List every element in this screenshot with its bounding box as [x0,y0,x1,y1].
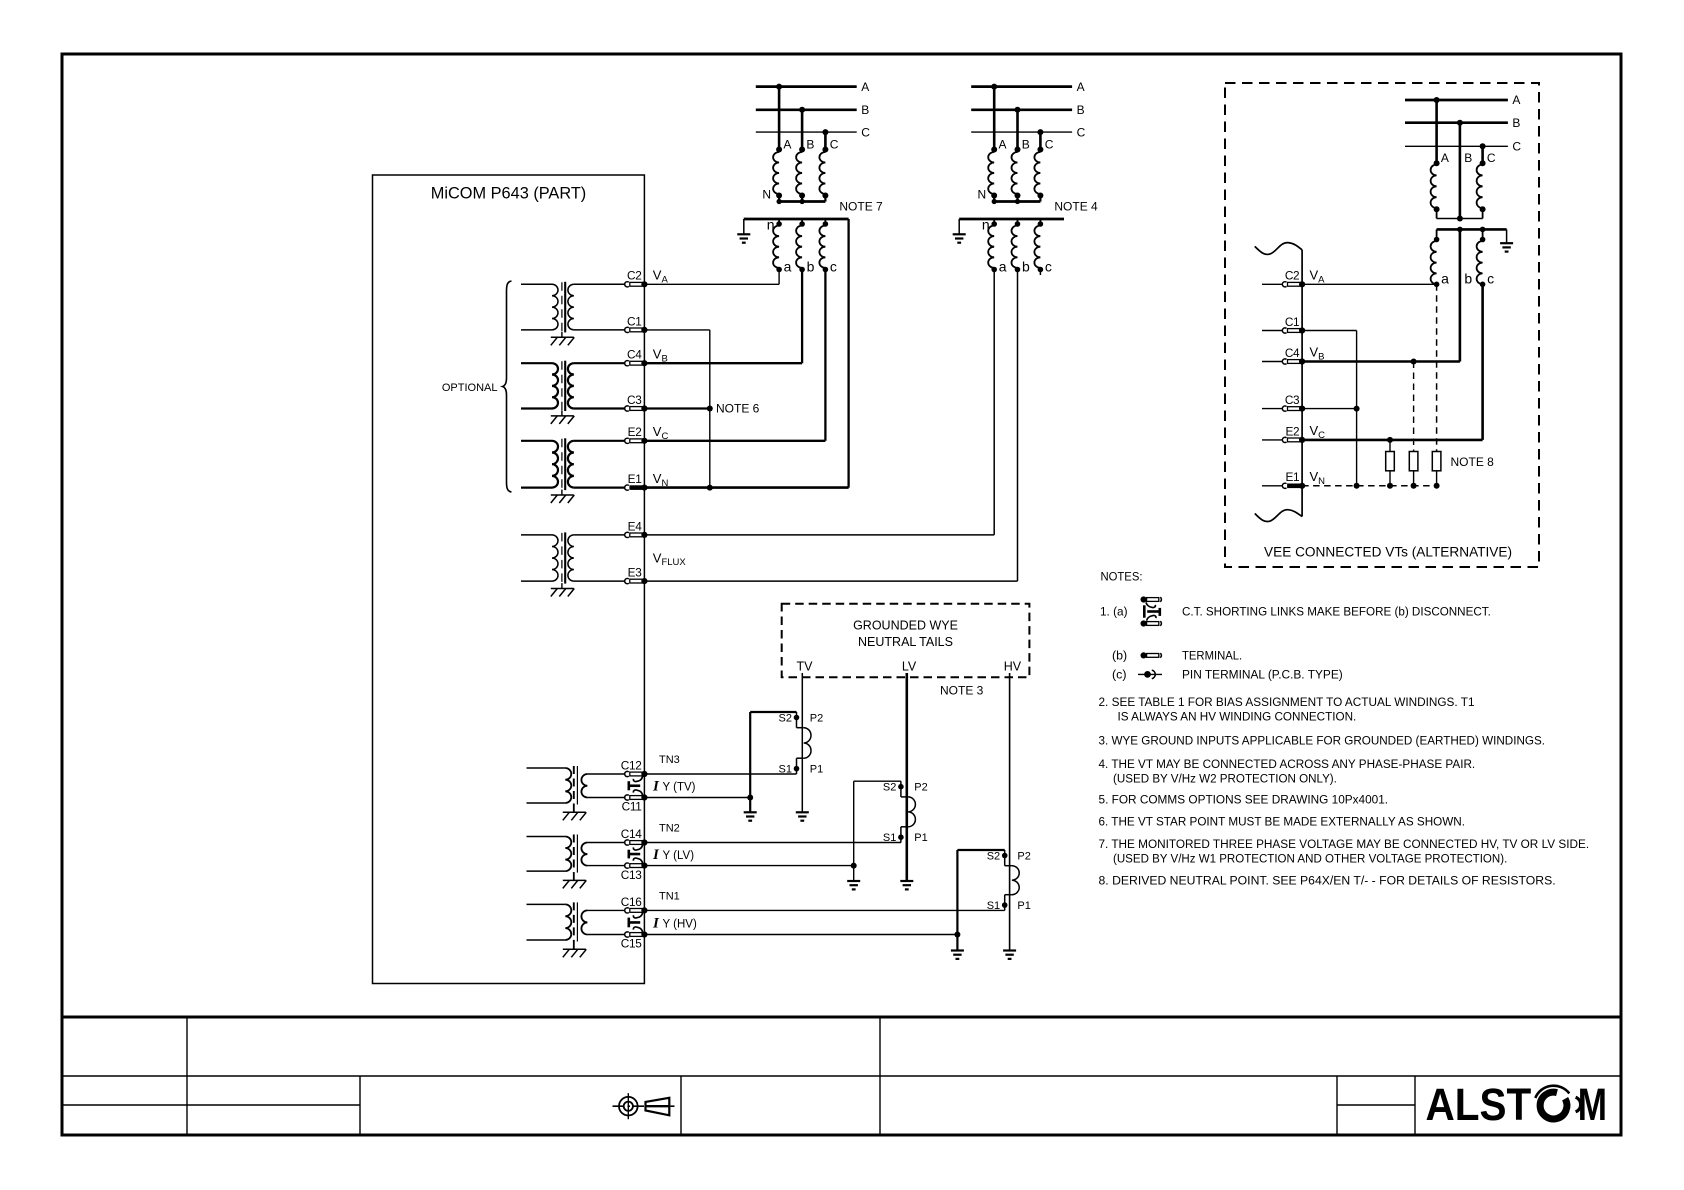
svg-text:N: N [978,188,987,202]
VT primary winding B [1012,152,1018,194]
VEE relay bus [1301,250,1303,517]
stub bank2 c [1039,270,1041,276]
terminal E1 [625,472,648,491]
svg-text:5. FOR COMMS OPTIONS SEE DRAW: 5. FOR COMMS OPTIONS SEE DRAWING 10Px400… [1099,793,1389,807]
svg-text:NOTE 6: NOTE 6 [716,401,760,415]
wire C13 loop to S2 LV [644,865,853,867]
svg-text:C.T. SHORTING LINKS MAKE BEFOR: C.T. SHORTING LINKS MAKE BEFORE (b) DISC… [1182,605,1491,619]
tap C wire [824,132,827,149]
svg-text:NOTE 4: NOTE 4 [1054,200,1098,214]
svg-text:C1: C1 [1285,315,1299,329]
junction C11 ground [747,795,753,801]
svg-text:I: I [652,915,660,931]
resistor R3 (NOTE 8) [1432,452,1441,471]
brace OPTIONAL group [503,281,512,492]
junction C1-VN [707,485,713,491]
shorting link C12-C11 [628,776,643,795]
title block sub-row line right [1337,1104,1415,1106]
svg-text:C4: C4 [1285,346,1300,360]
VT primary winding C [819,152,825,194]
VEE junction C3-C1 [1354,406,1360,412]
svg-text:C: C [861,125,870,139]
secondary earth stub [958,219,960,234]
svg-text:P2: P2 [1017,851,1030,863]
svg-text:C: C [1512,140,1521,154]
tap C wire [1039,132,1042,149]
VT primary winding C [1034,152,1040,194]
tap B wire [801,110,804,150]
VEE primary rail [1437,218,1483,220]
tap A wire [778,87,781,150]
svg-text:c: c [1487,271,1494,287]
VEE terminal C2 [1262,269,1305,288]
VT primary winding A [988,152,994,194]
MiCOM P643 relay box [373,175,645,984]
VEE bus B [1405,121,1508,124]
svg-text:NOTE 3: NOTE 3 [940,684,984,698]
svg-text:C: C [1045,138,1054,152]
junction C13 ground [851,863,857,869]
svg-text:NOTES:: NOTES: [1101,570,1143,584]
earth ground TV loop [744,811,757,813]
resistor R2 (NOTE 8) [1409,452,1418,471]
transformer VT3 (VC-VN input) [521,438,625,503]
svg-text:C12: C12 [621,758,642,772]
transformer CT TN3 [527,766,626,820]
svg-text:3. WYE GROUND INPUTS APPLICABL: 3. WYE GROUND INPUTS APPLICABLE FOR GROU… [1099,734,1546,748]
terminal C13 [621,863,648,882]
earth ground LV tail [900,880,913,882]
earth ground VEE [1500,242,1513,244]
svg-text:c: c [1045,259,1052,275]
title block vertical x1337 [1336,1076,1338,1135]
earth stub LV loop [853,866,855,881]
svg-text:TN2: TN2 [659,823,680,835]
bus A (NOTE 7) [756,85,857,88]
svg-text:C4: C4 [627,348,642,362]
tap A wire [993,87,996,150]
VEE wire VC [1302,439,1483,442]
svg-text:A: A [1441,151,1449,165]
svg-text:a: a [999,259,1007,275]
VEE terminal E2 [1262,424,1305,443]
VEE lead c down [1481,284,1484,440]
title block vertical x187 [186,1017,188,1135]
VEE secondary winding c [1482,229,1484,241]
VT secondary winding a [778,219,780,226]
svg-text:(USED BY V/Hz W1 PROTECTION AN: (USED BY V/Hz W1 PROTECTION AND OTHER VO… [1113,851,1507,865]
VEE terminal E1 [1262,470,1305,489]
svg-text:S2: S2 [779,713,792,725]
svg-text:8. DERIVED NEUTRAL POINT. SE: 8. DERIVED NEUTRAL POINT. SEE P64X/EN T/… [1099,874,1556,888]
label I Y (LV) [652,847,694,863]
wire b to VB [801,270,803,364]
CT on HV tail [1002,850,1019,910]
bus C (NOTE 4) [971,131,1072,133]
VEE bus A [1405,99,1508,102]
svg-text:GROUNDED WYE: GROUNDED WYE [853,619,958,633]
VEE wire C3 [1302,408,1357,410]
bus B (NOTE 7) [756,108,857,111]
HV neutral tail [1009,673,1011,951]
svg-text:NOTE 7: NOTE 7 [839,200,883,214]
earth stub HV loop [956,935,958,951]
svg-text:VEE CONNECTED VTs (ALTERNATIVE: VEE CONNECTED VTs (ALTERNATIVE) [1264,545,1512,560]
svg-text:A: A [999,138,1007,152]
shorting link C14-C13 [628,845,643,864]
svg-text:4. THE VT MAY BE CONNECTED ACR: 4. THE VT MAY BE CONNECTED ACROSS ANY PH… [1099,757,1476,771]
svg-text:IS ALWAYS AN HV WINDING CONNEC: IS ALWAYS AN HV WINDING CONNECTION. [1118,709,1357,723]
tap B wire [1016,110,1019,150]
earth stub TV loop [749,798,751,813]
wire bank2 b to E3 [1017,270,1019,582]
VEE tap C [1481,146,1484,163]
wire c to VC [824,270,826,441]
VT primary winding A [773,152,779,194]
VEE wire VN derived neutral [1302,485,1437,487]
earth ground [737,233,750,235]
svg-text:A: A [861,80,869,94]
svg-text:C16: C16 [621,895,642,909]
bus A (NOTE 4) [971,85,1072,88]
label I Y (TV) [652,778,696,794]
VEE primary winding A-B [1431,165,1437,209]
wire C14 to S1 LV [644,842,901,844]
transformer CT TN2 [527,835,626,889]
svg-text:P1: P1 [810,764,823,776]
terminal C2 [625,269,648,288]
R3 bottom lead [1436,471,1438,486]
title block row separator [62,1075,1621,1077]
svg-text:C14: C14 [621,827,642,841]
wire bank2 a to E4 [993,270,995,535]
svg-text:P1: P1 [914,832,927,844]
svg-text:TN3: TN3 [659,754,680,766]
VEE dashed lead a to resistor [1436,284,1438,451]
VT secondary winding a [993,219,995,226]
terminal E3 [625,566,648,585]
svg-text:I: I [652,778,660,794]
R1 top lead [1389,440,1391,452]
VT secondary winding c [1039,219,1041,226]
VEE secondary winding a [1436,229,1438,241]
GROUNDED WYE NEUTRAL TAILS box [782,604,1030,677]
wire C15 loop to S2 HV [644,934,957,936]
junction C3/C1 [707,406,713,412]
svg-text:c: c [830,259,837,275]
svg-text:C3: C3 [1285,393,1300,407]
wire C3 to star point [644,407,709,409]
VEE terminal C1 [1262,315,1305,334]
svg-text:C: C [1487,151,1496,165]
legend symbol terminal [1141,652,1162,658]
VT secondary winding b [1017,219,1019,226]
shorting link C16-C15 [628,913,643,933]
title block top line [62,1016,1621,1019]
title block vertical x880 [879,1017,881,1135]
svg-text:C15: C15 [621,937,642,951]
earth ground LV loop [847,880,860,882]
svg-text:S2: S2 [987,851,1000,863]
svg-text:P2: P2 [810,713,823,725]
svg-text:MiCOM P643 (PART): MiCOM P643 (PART) [431,184,587,203]
wire C1 to star point [644,329,709,331]
svg-text:A: A [783,138,791,152]
svg-text:a: a [784,259,792,275]
svg-text:C: C [1077,125,1086,139]
svg-text:C2: C2 [1285,269,1299,283]
svg-text:C13: C13 [621,868,642,882]
title block sub-row line left [62,1104,360,1106]
LV neutral tail [905,673,908,881]
earth ground HV loop [951,949,964,951]
earth ground HV tail [1003,949,1016,951]
svg-text:B: B [861,103,869,117]
svg-text:C1: C1 [627,314,641,328]
terminal C3 [625,393,648,412]
svg-text:ALST: ALST [1426,1080,1532,1130]
terminal C4 [625,348,648,367]
CT on LV tail [898,781,915,842]
R1 bottom lead [1389,471,1391,486]
VEE junction C1-VN [1354,483,1360,489]
title block vertical x360 [359,1076,361,1135]
svg-text:b: b [1022,259,1030,275]
transformer CT TN1 [527,902,626,957]
terminal C1 [625,314,648,333]
svg-text:NOTE 8: NOTE 8 [1451,455,1495,469]
svg-text:E2: E2 [628,425,642,439]
svg-text:a: a [1441,271,1449,287]
junction C15 ground [954,932,960,938]
VEE earth stub [1506,229,1508,243]
wire C12 to S1 TV [644,773,796,775]
svg-text:C11: C11 [622,800,642,814]
primary star rail [994,200,1040,203]
VEE secondary rail [1437,228,1507,231]
svg-text:A: A [1512,93,1520,107]
svg-text:E1: E1 [1285,470,1299,484]
svg-text:LV: LV [902,660,917,674]
svg-text:b: b [807,259,815,275]
resistor R1 (NOTE 8) [1386,452,1395,471]
ALSTOM logo [1426,1079,1608,1131]
CT on TV tail [794,712,811,774]
VEE wire VB [1302,360,1460,363]
wire C16 to S1 HV [644,909,1004,911]
VT secondary winding b [801,219,803,226]
svg-text:NEUTRAL TAILS: NEUTRAL TAILS [858,635,953,649]
svg-text:1. (a): 1. (a) [1100,605,1128,619]
R2 top lead dashed [1413,362,1415,452]
VEE terminal C4 [1262,346,1305,365]
svg-text:B: B [1512,116,1520,130]
VEE tap B [1459,123,1462,219]
transformer VT2 (VB input) [521,361,625,424]
svg-text:C3: C3 [627,393,642,407]
svg-text:TERMINAL.: TERMINAL. [1182,649,1242,663]
svg-text:6. THE VT STAR POINT MUST BE M: 6. THE VT STAR POINT MUST BE MADE EXTERN… [1099,814,1466,828]
VEE terminal C3 [1262,393,1305,412]
break squiggle bottom [1255,510,1302,522]
wire a to VA [778,270,780,285]
svg-text:(c): (c) [1112,668,1126,682]
svg-text:b: b [1464,271,1472,287]
VEE tap A [1435,100,1438,163]
R2 bottom lead [1413,471,1415,486]
earth ground TV tail [796,811,809,813]
bus C (NOTE 7) [756,131,857,133]
svg-text:P1: P1 [1017,900,1030,912]
terminal C14 [621,827,648,846]
VEE CONNECTED VTs box [1225,83,1539,567]
svg-text:B: B [1464,151,1472,165]
svg-text:Y (LV): Y (LV) [663,850,695,862]
legend symbol pin terminal [1138,670,1162,679]
VEE primary winding B-C [1477,165,1483,209]
wire n-rail to VN [847,219,849,488]
svg-text:Y (TV): Y (TV) [663,781,696,793]
svg-text:S2: S2 [883,782,896,794]
svg-text:A: A [1077,80,1085,94]
secondary neutral rail [959,218,1064,221]
title block vertical x681 [680,1076,682,1135]
svg-text:I: I [652,847,660,863]
VEE secondary lead b [1459,229,1462,361]
terminal C11 [622,794,648,813]
svg-text:P2: P2 [914,782,927,794]
svg-text:OPTIONAL: OPTIONAL [442,382,498,394]
svg-text:N: N [762,188,771,202]
bus B (NOTE 4) [971,108,1072,111]
svg-text:(b): (b) [1112,649,1127,663]
transformer VT1 (VA input) [521,282,625,346]
svg-text:E4: E4 [628,519,643,533]
svg-text:TV: TV [797,660,814,674]
svg-text:PIN TERMINAL (P.C.B. TYPE): PIN TERMINAL (P.C.B. TYPE) [1182,668,1343,682]
svg-text:7. THE MONITORED THREE PHASE V: 7. THE MONITORED THREE PHASE VOLTAGE MAY… [1099,837,1590,851]
terminal C16 [621,895,648,914]
legend symbol CT shorting link [1141,596,1162,626]
title block vertical x1415 [1414,1076,1416,1135]
VT primary winding B [796,152,802,194]
break squiggle top [1255,243,1302,255]
terminal E4 [625,519,648,538]
TV neutral tail [801,673,803,812]
svg-text:2. SEE TABLE 1 FOR BIAS ASSIG: 2. SEE TABLE 1 FOR BIAS ASSIGNMENT TO AC… [1099,695,1475,709]
transformer VT4 (VFLUX input) [521,532,625,596]
terminal C15 [621,931,648,950]
VEE bus C [1405,145,1508,147]
label I Y (HV) [652,915,697,931]
first-angle projection symbol [613,1093,678,1119]
svg-text:E3: E3 [628,566,643,580]
primary star rail [779,200,825,203]
svg-text:TN1: TN1 [659,891,680,903]
svg-text:(USED BY V/Hz W2 PROTECTION ON: (USED BY V/Hz W2 PROTECTION ONLY). [1113,771,1337,785]
VEE wire C1 [1302,330,1357,332]
svg-text:Y (HV): Y (HV) [663,918,697,930]
secondary neutral rail [744,218,849,221]
svg-text:B: B [806,138,814,152]
terminal C12 [621,758,648,777]
earth ground [953,233,966,235]
svg-text:E2: E2 [1285,424,1299,438]
wire C11 loop to S2 TV [644,797,750,799]
svg-text:C2: C2 [627,269,641,283]
svg-text:C: C [830,138,839,152]
svg-text:B: B [1077,103,1085,117]
secondary earth stub [743,219,745,234]
svg-text:B: B [1022,138,1030,152]
terminal E2 [625,425,648,444]
VT secondary winding c [824,219,826,226]
VEE wire VA [1302,283,1437,285]
svg-text:E1: E1 [628,472,642,486]
svg-text:HV: HV [1004,660,1022,674]
